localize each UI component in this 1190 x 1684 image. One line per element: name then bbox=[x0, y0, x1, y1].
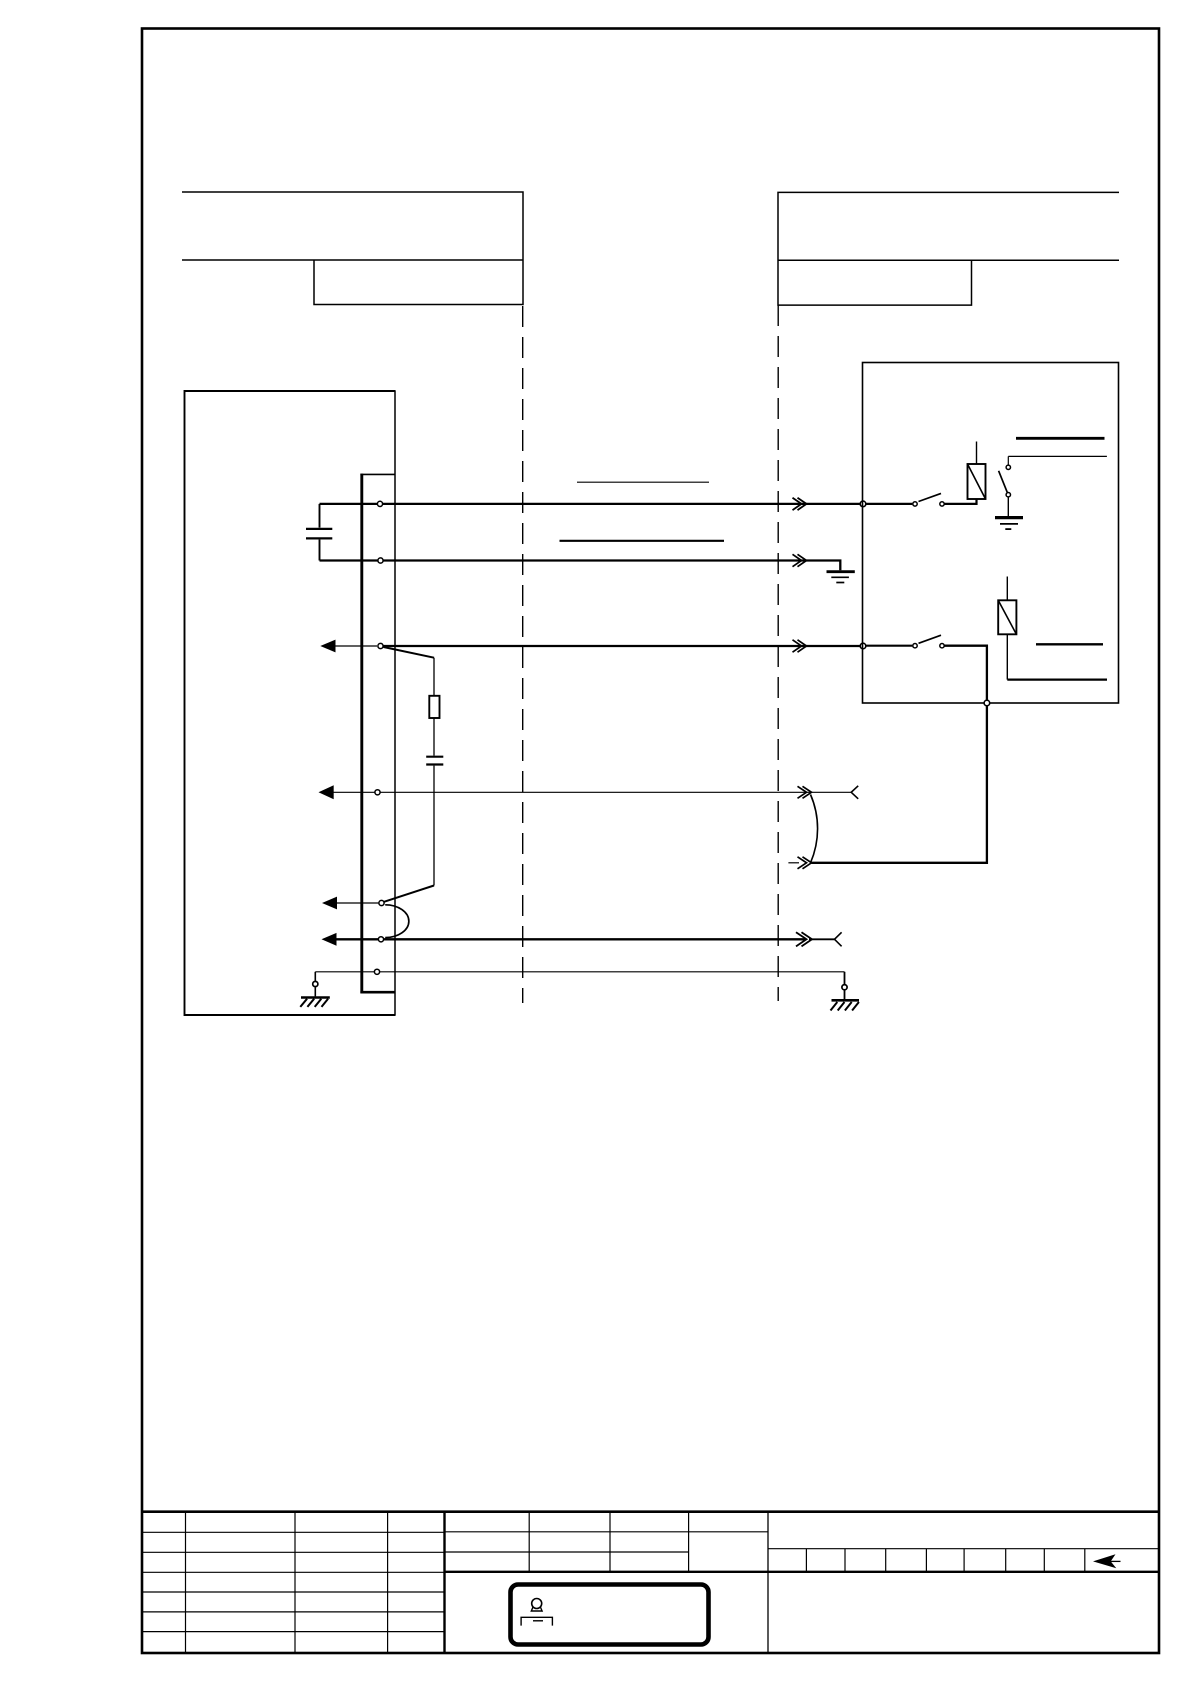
pin 4 bbox=[375, 790, 380, 795]
stamp box bbox=[511, 1585, 709, 1645]
wire bbox=[809, 938, 835, 940]
wire pin2 bbox=[320, 561, 841, 571]
dashed harness boundary right bbox=[777, 305, 779, 1001]
earth ground (S2) bbox=[995, 497, 1023, 529]
RC branch: diagonal to pin5 bbox=[384, 886, 434, 902]
connector socket (wire4 end) bbox=[851, 786, 858, 799]
header left box bbox=[182, 192, 523, 305]
header right box bbox=[778, 192, 1119, 305]
arrow into ECU pin5 bbox=[322, 897, 337, 910]
wire pin3 bbox=[384, 645, 862, 647]
scale cells bbox=[806, 1549, 1084, 1572]
pin 5 bbox=[379, 900, 384, 905]
node C (box bottom) bbox=[984, 700, 990, 706]
pin 3 bbox=[378, 643, 383, 648]
wire 4b bbox=[812, 704, 987, 863]
chevron connector wire1 bbox=[793, 498, 807, 510]
relay coil K2 bbox=[998, 577, 1016, 680]
signal label underline (thin) bbox=[577, 481, 709, 483]
wire pin1 bbox=[320, 503, 862, 505]
wire 4b stub bbox=[788, 862, 799, 864]
pin 6 bbox=[378, 937, 383, 942]
revision table right border bbox=[443, 1512, 445, 1653]
relay coil K1 bbox=[968, 442, 986, 500]
chassis ground (left) bbox=[300, 972, 330, 1007]
label underline (bold, relay top right) bbox=[1016, 437, 1105, 440]
wire bbox=[433, 766, 435, 886]
revision table rows bbox=[142, 1532, 445, 1631]
wire pin6 bbox=[335, 938, 806, 940]
chevron connector wire4b bbox=[798, 857, 812, 869]
earth ground (wire2) bbox=[827, 572, 855, 583]
ECU box bbox=[185, 391, 396, 1015]
label underline (bold, K2) bbox=[1036, 643, 1103, 645]
arrow into ECU pin3 bbox=[320, 640, 335, 653]
chevron connector wire3 bbox=[793, 640, 807, 652]
jumper arc pin5-pin6 bbox=[385, 905, 409, 938]
title section divider bbox=[767, 1512, 769, 1653]
switch S3 bbox=[866, 635, 987, 700]
pin 7 bbox=[374, 969, 379, 974]
revision table columns bbox=[186, 1512, 388, 1653]
title block top border bbox=[142, 1510, 1159, 1513]
approval table rows bbox=[445, 1532, 769, 1552]
wire bbox=[433, 658, 435, 696]
wire K2 bottom bbox=[1007, 678, 1107, 680]
wire pin7 bbox=[315, 971, 844, 973]
chevron connector wire4 bbox=[798, 786, 812, 798]
pin 1 bbox=[377, 501, 382, 506]
resistor R1 bbox=[429, 696, 439, 718]
dashed harness boundary left bbox=[522, 306, 524, 1003]
node A bbox=[860, 501, 866, 507]
chevron connector wire2 bbox=[793, 554, 807, 566]
signal label underline (bold) bbox=[560, 540, 725, 542]
switch S1 bbox=[866, 493, 977, 506]
capacitor C1 bbox=[306, 504, 332, 561]
approval table columns bbox=[529, 1512, 688, 1572]
connector strip bbox=[360, 474, 363, 994]
chevron connector wire6 bbox=[796, 932, 812, 946]
arrow into ECU pin6 bbox=[322, 933, 337, 946]
RC branch: diagonal from pin3 bbox=[384, 647, 435, 658]
connector socket (wire6 end) bbox=[835, 932, 842, 946]
pin 2 bbox=[378, 558, 383, 563]
node B bbox=[860, 643, 866, 649]
title block mid border bbox=[445, 1571, 1160, 1573]
chassis ground (right) bbox=[831, 972, 860, 1011]
wire bbox=[433, 718, 435, 756]
stamp seal icon bbox=[521, 1599, 552, 1626]
arrow into ECU pin4 bbox=[319, 785, 334, 799]
wire pin4 bbox=[381, 791, 852, 793]
capacitor C2 bbox=[426, 757, 443, 765]
relay unit box bbox=[863, 363, 1119, 704]
switch S2 (relay contact) bbox=[999, 456, 1107, 497]
drawing number cell divider bbox=[768, 1548, 1159, 1550]
harness pair arc (wire4-wire4b) bbox=[811, 795, 818, 863]
third-angle arrow bbox=[1093, 1554, 1116, 1568]
